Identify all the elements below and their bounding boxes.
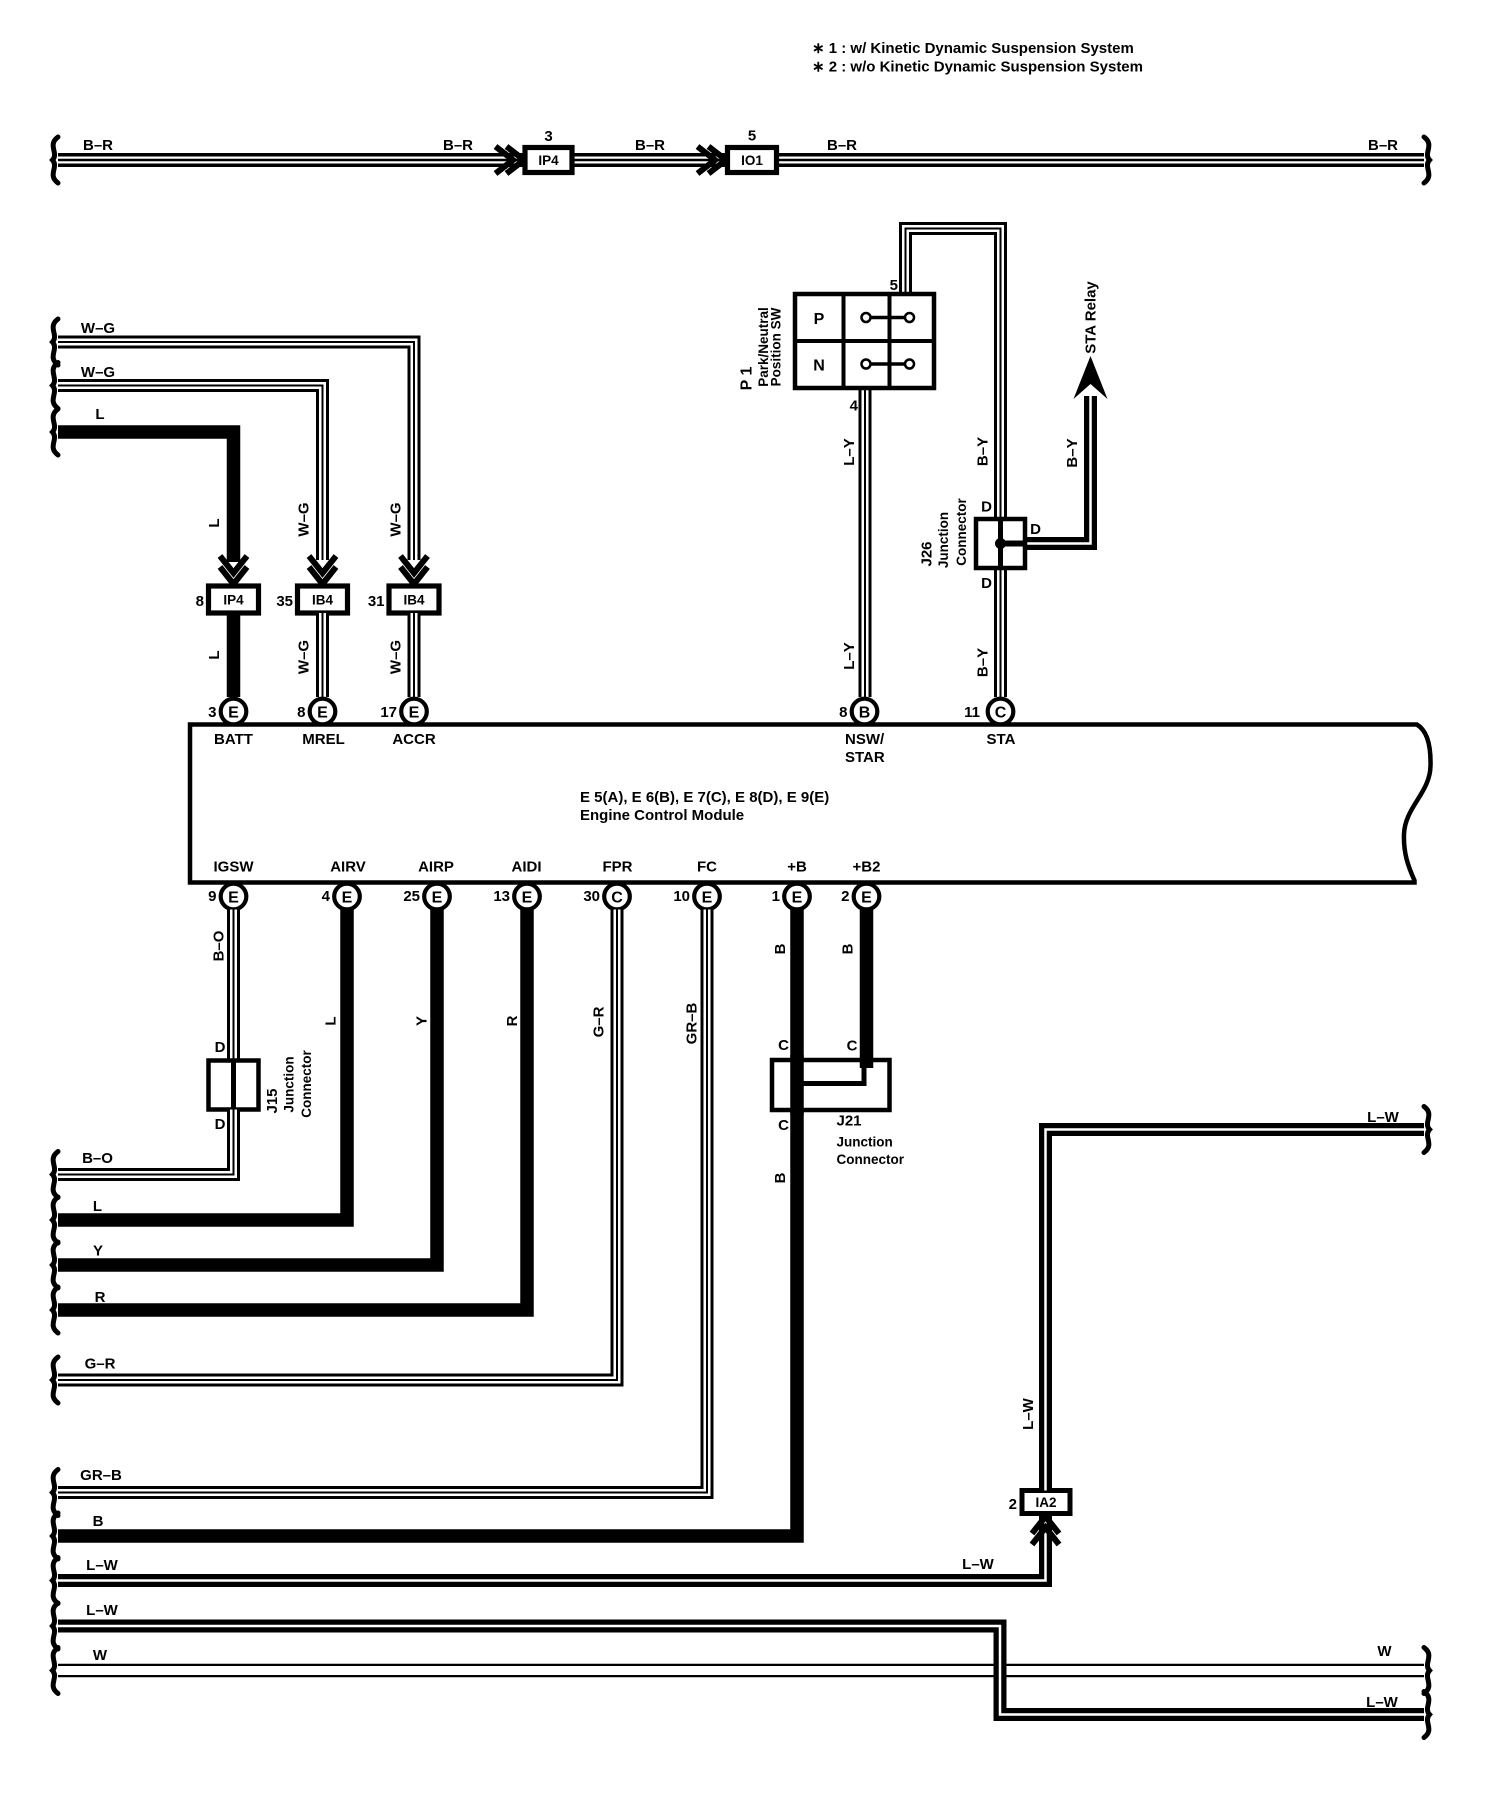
svg-text:+B2: +B2 [853,859,881,876]
svg-text:B–R: B–R [83,137,113,154]
svg-text:B–R: B–R [635,137,665,154]
svg-text:ACCR: ACCR [392,731,435,748]
svg-text:IP4: IP4 [223,593,244,608]
svg-text:E: E [522,889,533,906]
svg-text:L–W: L–W [86,1557,119,1574]
label G-R rotated [591,1006,608,1037]
wire L-W bus2 jog [58,1626,1424,1715]
arrow into IP4 batt [220,556,247,584]
brace G-R left end [53,1357,59,1403]
svg-text:FC: FC [697,859,717,876]
label ECM line2 [580,807,744,824]
pin 11 C STA [964,699,1015,748]
label B-R after IP4 [635,137,665,154]
svg-text:B: B [859,704,871,721]
svg-text:C: C [995,704,1007,721]
svg-text:IO1: IO1 [741,153,763,168]
svg-text:Connector: Connector [299,1050,314,1118]
svg-text:25: 25 [403,888,420,905]
label B-Y upper [975,437,992,466]
label ECM line1 [580,789,829,806]
svg-text:Position SW: Position SW [769,307,784,386]
svg-text:E: E [228,889,239,906]
svg-text:B–O: B–O [211,930,228,961]
wire B-O IGSW to J15 [227,910,240,1061]
svg-text:B: B [93,1513,104,1530]
svg-text:8: 8 [196,593,204,610]
svg-text:GR–B: GR–B [684,1003,701,1045]
svg-text:J21: J21 [837,1113,862,1130]
label B-R after IO1 [827,137,857,154]
brace L left end [53,409,59,455]
label Position SW [769,307,784,386]
wire L-W IA2 up right [1046,1130,1425,1491]
svg-text:Junction: Junction [282,1056,297,1112]
label J21 [837,1113,862,1130]
svg-text:B–R: B–R [827,137,857,154]
svg-text:Junction: Junction [837,1135,893,1150]
label W-G accr [81,320,115,337]
label B-R right [1368,137,1398,154]
label B-O bus [82,1150,113,1167]
arrow into IP4 top [496,147,525,174]
svg-text:L–W: L–W [1020,1397,1037,1430]
brace L-W bus2 left end [53,1603,59,1649]
wire W-G IB4 to ACCR pin [408,613,421,697]
label L-W near IA2 [962,1556,995,1573]
svg-text:E: E [228,704,239,721]
svg-text:GR–B: GR–B [80,1467,122,1484]
svg-text:E: E [342,889,353,906]
svg-text:4: 4 [850,398,859,415]
pin 1 E +B [772,859,810,910]
label R bus [95,1289,106,1306]
pin 25 E AIRP [403,859,454,910]
svg-text:BATT: BATT [214,731,253,748]
label B-O rotated [211,930,228,961]
svg-text:STA: STA [987,731,1016,748]
svg-text:31: 31 [368,593,385,610]
svg-text:W: W [1377,1643,1392,1660]
svg-text:IB4: IB4 [403,593,425,608]
svg-text:8: 8 [839,704,847,721]
svg-text:W–G: W–G [388,502,405,536]
svg-text:STA Relay: STA Relay [1083,281,1100,354]
wire B-Y branch to STA relay [1003,396,1091,544]
connector IB4 (pin 35) mrel [276,586,347,613]
label C above J21 right [847,1038,858,1055]
wire W bus [58,1664,1424,1678]
brace W-G mrel left end [53,363,59,409]
svg-text:D: D [1030,521,1041,538]
svg-text:R: R [504,1015,521,1026]
wire R AIDI [58,910,527,1311]
svg-text:R: R [95,1289,106,1306]
svg-text:B–Y: B–Y [975,437,992,466]
svg-text:13: 13 [493,888,510,905]
connector IP4 (pin 8) batt [196,586,259,613]
label W-G rotated lower accr [388,640,405,674]
svg-text:W–G: W–G [81,364,115,381]
svg-text:IP4: IP4 [538,153,559,168]
svg-text:D: D [981,499,992,516]
brace B-O left end [53,1152,59,1198]
junction connector J26 [976,519,1026,568]
note *2 kinetic suspension [812,59,1143,76]
svg-text:W–G: W–G [296,502,313,536]
wire B +B to bus [58,910,797,1537]
label L rotated airv [323,1016,340,1025]
pin 13 E AIDI [493,859,541,910]
label L-Y upper [841,438,858,466]
connector IB4 (pin 31) accr [368,586,439,613]
brace Y left end [53,1242,59,1288]
label L-W rotated ia2 [1020,1397,1037,1430]
svg-text:B–R: B–R [1368,137,1398,154]
label B-R left [83,137,113,154]
switch P1 park/neutral position SW [795,294,934,388]
label W-G rotated lower mrel [296,640,313,674]
label D above J26 [981,499,992,516]
svg-text:E: E [432,889,443,906]
svg-text:1: 1 [772,888,780,905]
label R rotated [504,1015,521,1026]
svg-text:L–W: L–W [1366,1694,1399,1711]
svg-text:E: E [317,704,328,721]
label W-G mrel [81,364,115,381]
svg-text:MREL: MREL [302,731,345,748]
label J26 Junction [936,512,951,568]
wire W-G to MREL [58,386,323,561]
brace B-R bus left end [53,137,59,183]
wire L-Y pin4 to NSW pin [859,388,872,697]
label L-W top right [1367,1109,1400,1126]
svg-text:Engine Control Module: Engine Control Module [580,807,744,824]
svg-text:W–G: W–G [81,320,115,337]
label D right J26 [1030,521,1041,538]
svg-text:2: 2 [1009,1496,1017,1513]
svg-text:D: D [981,575,992,592]
label J15 [264,1088,281,1113]
svg-text:Y: Y [414,1016,431,1026]
svg-text:∗ 1 : w/ Kinetic Dynamic Suspe: ∗ 1 : w/ Kinetic Dynamic Suspension Syst… [812,40,1134,57]
label L batt [95,406,104,423]
wire L to BATT [58,432,234,562]
wire G-R FPR [58,910,617,1381]
svg-text:IGSW: IGSW [214,859,255,876]
svg-text:C: C [847,1038,858,1055]
svg-text:W: W [93,1647,108,1664]
wire L IP4 to BATT pin [227,613,241,697]
svg-text:3: 3 [208,704,216,721]
brace L-W bottom right end [1424,1692,1430,1738]
label W-G rotated upper mrel [296,502,313,536]
svg-text:5: 5 [748,128,756,145]
label J15 Connector [299,1050,314,1118]
label P 1 [739,367,756,391]
label Park/Neutral [756,307,771,387]
svg-text:L–W: L–W [1367,1109,1400,1126]
svg-text:FPR: FPR [603,859,633,876]
svg-text:∗ 2 : w/o Kinetic Dynamic Susp: ∗ 2 : w/o Kinetic Dynamic Suspension Sys… [812,59,1143,76]
label L rotated upper [206,518,223,527]
brace B-R bus right end [1424,137,1430,183]
svg-text:L: L [206,518,223,527]
brace R left end [53,1287,59,1333]
label J15 Junction [282,1056,297,1112]
connector IA2 (pin 2) [1009,1491,1070,1514]
label 4 switch pin [850,398,859,415]
svg-text:35: 35 [276,593,293,610]
svg-text:N: N [813,358,825,375]
junction connector J15 [209,1061,259,1110]
svg-text:IA2: IA2 [1035,1495,1056,1510]
label C below J21 [778,1117,789,1134]
wire GR-B FC [58,910,707,1493]
label J26 [919,541,936,566]
pin 2 E +B2 [841,859,880,910]
brace L airv left end [53,1197,59,1243]
label J26 Connector [954,498,969,566]
pin 17 E ACCR [380,699,436,748]
svg-text:B: B [840,943,857,954]
label GR-B bus [80,1467,122,1484]
svg-text:L–W: L–W [86,1602,119,1619]
wire W-G to ACCR [58,342,414,560]
svg-text:B–R: B–R [443,137,473,154]
label L bus [93,1198,102,1215]
svg-text:Junction: Junction [936,512,951,568]
svg-text:Connector: Connector [837,1152,905,1167]
svg-text:E 5(A), E 6(B), E 7(C), E 8(D): E 5(A), E 6(B), E 7(C), E 8(D), E 9(E) [580,789,829,806]
svg-text:B–O: B–O [82,1150,113,1167]
label B-Y branch [1064,438,1081,467]
wire B +B2 to J21 [860,910,874,1067]
connector IP4 (pin 3) on bus [525,128,572,173]
label B-R mid [443,137,473,154]
label STA Relay [1083,281,1100,354]
label D below J15 [215,1116,226,1133]
svg-text:30: 30 [583,888,600,905]
label L rotated lower [206,650,223,659]
label B rotated +B [772,943,789,954]
svg-text:E: E [861,889,872,906]
svg-text:L–Y: L–Y [841,438,858,466]
brace W left end [53,1648,59,1694]
svg-text:C: C [778,1037,789,1054]
pin 8 B NSW/STAR [839,699,885,766]
arrow into IO1 [698,147,727,174]
label L-Y lower [841,642,858,670]
wire B-R bus middle segment [570,153,730,167]
brace GR-B left end [53,1470,59,1516]
svg-text:G–R: G–R [591,1006,608,1037]
svg-text:9: 9 [208,888,216,905]
svg-text:P: P [814,311,825,328]
svg-text:L: L [95,406,104,423]
junction connector J21 [772,1055,890,1115]
label W-G rotated upper accr [388,502,405,536]
connector IO1 (pin 5) on bus [728,128,777,173]
label D above J15 [215,1039,226,1056]
svg-text:Connector: Connector [954,498,969,566]
svg-text:E: E [702,889,713,906]
svg-text:B: B [772,1172,789,1183]
wire W-G IB4 to MREL pin [316,613,329,697]
svg-text:3: 3 [544,128,552,145]
label L-W bus2 [86,1602,119,1619]
label B-Y lower [975,648,992,677]
svg-text:L: L [206,650,223,659]
label L-W bottom right [1366,1694,1399,1711]
svg-text:C: C [778,1117,789,1134]
wire B-R bus right segment [774,153,1424,167]
brace L-W top right end [1424,1107,1430,1153]
svg-text:B–Y: B–Y [975,648,992,677]
svg-text:W–G: W–G [388,640,405,674]
arrowhead STA relay [1074,356,1108,399]
svg-text:17: 17 [380,704,397,721]
svg-text:8: 8 [297,704,305,721]
label J21 Connector [837,1152,905,1167]
wire L-W bus1 to IA2 [58,1513,1046,1581]
label C above J21 left [778,1037,789,1054]
svg-text:11: 11 [964,704,980,721]
svg-text:L: L [323,1016,340,1025]
pin 9 E IGSW [208,859,254,910]
pin 4 E AIRV [322,859,366,910]
svg-text:E: E [792,889,803,906]
svg-text:L–W: L–W [962,1556,995,1573]
svg-text:P 1: P 1 [739,367,756,391]
label B rotated +B2 [840,943,857,954]
svg-text:J26: J26 [919,541,936,566]
svg-text:C: C [611,889,623,906]
label D below J26 [981,575,992,592]
label B rotated below J21 [772,1172,789,1183]
svg-text:D: D [215,1039,226,1056]
pin 8 E MREL [297,699,345,748]
label W bus left [93,1647,108,1664]
label W bus right [1377,1643,1392,1660]
svg-text:L–Y: L–Y [841,642,858,670]
svg-text:AIRV: AIRV [330,859,366,876]
svg-text:AIRP: AIRP [418,859,454,876]
svg-text:10: 10 [673,888,690,905]
arrow into IB4 mrel [309,556,336,584]
brace B left end [53,1513,59,1559]
label J21 Junction [837,1135,893,1150]
brace L-W bus1 left end [53,1558,59,1604]
brace W-G accr left end [53,319,59,365]
svg-text:AIDI: AIDI [512,859,542,876]
svg-text:E: E [409,704,420,721]
svg-text:G–R: G–R [85,1356,116,1373]
label L-W bus1 [86,1557,119,1574]
label GR-B rotated [684,1003,701,1045]
svg-text:Y: Y [93,1243,103,1260]
ECM engine control module box [190,725,1431,883]
svg-text:+B: +B [787,859,807,876]
svg-text:W–G: W–G [296,640,313,674]
label B bus [93,1513,104,1530]
wire B-R bus left segment [58,153,527,167]
svg-text:B: B [772,943,789,954]
svg-text:IB4: IB4 [312,593,334,608]
svg-text:J15: J15 [264,1088,281,1113]
svg-text:4: 4 [322,888,331,905]
pin 30 C FPR [583,859,632,910]
svg-text:5: 5 [890,277,898,294]
wire L AIRV [58,910,347,1221]
svg-text:D: D [215,1116,226,1133]
svg-text:B–Y: B–Y [1064,438,1081,467]
brace W right end [1424,1648,1430,1694]
label 5 switch pin [890,277,898,294]
pin 10 E FC [673,859,719,910]
note *1 kinetic suspension [812,40,1134,57]
label Y bus [93,1243,103,1260]
arrow into IA2 [1032,1517,1059,1545]
svg-text:NSW/: NSW/ [845,731,885,748]
svg-text:2: 2 [841,888,849,905]
wire B-O J15 to left [58,1110,234,1175]
svg-text:STAR: STAR [845,749,885,766]
arrow into IB4 accr [401,556,428,584]
label Y rotated [414,1016,431,1026]
wire Y AIRP [58,910,437,1266]
pin 3 E BATT [208,699,253,748]
label G-R bus [85,1356,116,1373]
svg-text:L: L [93,1198,102,1215]
wire B-Y pin5 to STA pin [906,229,1001,698]
